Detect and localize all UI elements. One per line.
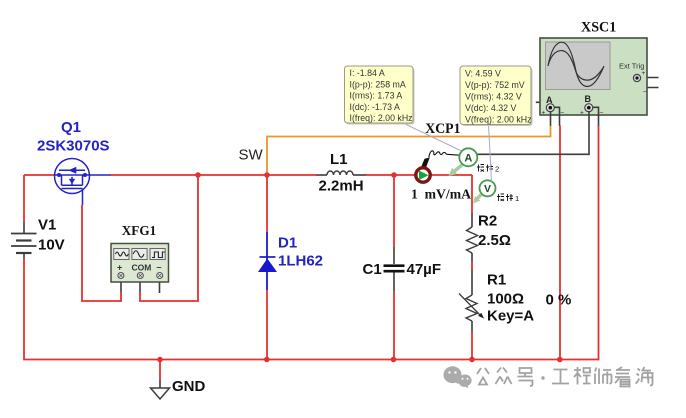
svg-text:I(dc): -1.73 A: I(dc): -1.73 A bbox=[350, 102, 400, 112]
svg-text:I(rms): 1.73 A: I(rms): 1.73 A bbox=[350, 91, 403, 101]
svg-text:10V: 10V bbox=[38, 237, 65, 254]
svg-text:V: 4.59 V: V: 4.59 V bbox=[465, 69, 501, 79]
svg-text:SW: SW bbox=[239, 147, 264, 164]
svg-text:B: B bbox=[585, 94, 592, 104]
svg-text:I: -1.84 A: I: -1.84 A bbox=[350, 68, 385, 78]
svg-text:XSC1: XSC1 bbox=[581, 20, 616, 36]
svg-text:2.5Ω: 2.5Ω bbox=[478, 232, 511, 249]
svg-text:+: + bbox=[542, 110, 546, 117]
svg-text:D1: D1 bbox=[278, 235, 297, 252]
svg-text:2.2mH: 2.2mH bbox=[319, 178, 364, 195]
svg-text:A: A bbox=[464, 152, 472, 164]
svg-text:–: – bbox=[600, 110, 604, 117]
svg-text:L1: L1 bbox=[330, 151, 348, 168]
svg-text:V: V bbox=[484, 183, 491, 195]
svg-text:2: 2 bbox=[495, 165, 499, 174]
svg-text:–: – bbox=[157, 262, 162, 272]
svg-text:100Ω: 100Ω bbox=[487, 291, 524, 308]
svg-text:Key=A: Key=A bbox=[487, 308, 534, 325]
svg-text:+: + bbox=[642, 70, 646, 77]
svg-text:+: + bbox=[580, 110, 584, 117]
svg-text:V(rms): 4.32 V: V(rms): 4.32 V bbox=[465, 92, 522, 102]
svg-text:V(p-p): 752 mV: V(p-p): 752 mV bbox=[465, 80, 525, 90]
svg-text:V1: V1 bbox=[38, 217, 56, 234]
svg-text:Q1: Q1 bbox=[61, 119, 81, 136]
svg-text:COM: COM bbox=[132, 263, 152, 273]
svg-text:C1: C1 bbox=[363, 261, 382, 278]
svg-text:I(p-p): 258 mA: I(p-p): 258 mA bbox=[350, 79, 406, 89]
svg-text:GND: GND bbox=[172, 378, 206, 395]
svg-text:XFG1: XFG1 bbox=[122, 224, 156, 239]
svg-text:1LH62: 1LH62 bbox=[278, 253, 323, 270]
svg-text:V(dc): 4.32 V: V(dc): 4.32 V bbox=[465, 103, 516, 113]
svg-text:–: – bbox=[643, 88, 647, 95]
svg-text:V(freq): 2.00 kHz: V(freq): 2.00 kHz bbox=[465, 115, 532, 125]
svg-text:I(freq): 2.00 kHz: I(freq): 2.00 kHz bbox=[350, 113, 413, 123]
svg-text:2SK3070S: 2SK3070S bbox=[37, 138, 110, 155]
svg-text:1: 1 bbox=[515, 194, 519, 203]
svg-text:R2: R2 bbox=[478, 213, 497, 230]
svg-text:+: + bbox=[117, 263, 122, 273]
svg-text:0 %: 0 % bbox=[546, 292, 572, 309]
svg-text:47µF: 47µF bbox=[407, 261, 442, 278]
svg-text:R1: R1 bbox=[487, 272, 506, 289]
svg-text:XCP1: XCP1 bbox=[425, 121, 460, 137]
svg-text:–: – bbox=[561, 110, 565, 117]
svg-text:1 mV/mA: 1 mV/mA bbox=[411, 188, 472, 203]
